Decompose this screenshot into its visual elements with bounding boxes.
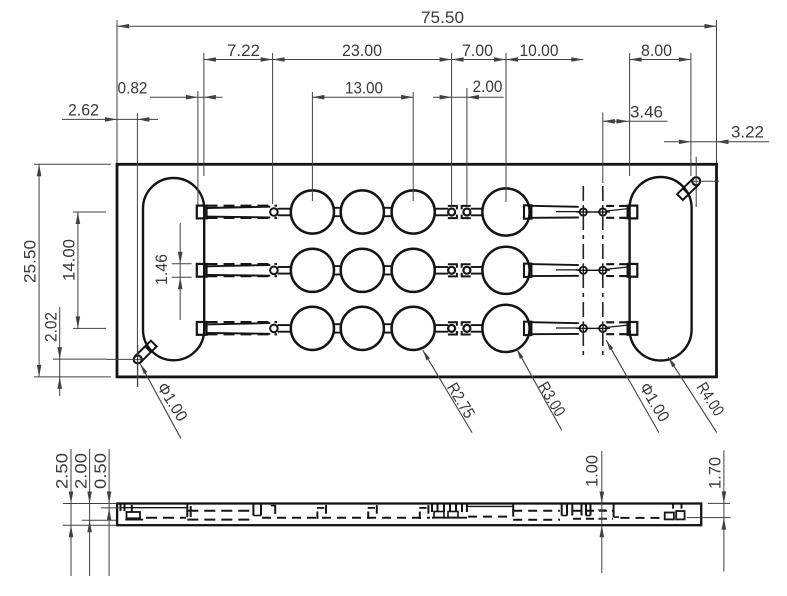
row3 circle 3 (R2.75)	[392, 307, 435, 350]
dimension 3.22	[664, 123, 769, 144]
svg-text:2.00: 2.00	[473, 78, 503, 96]
row3 link 1-2	[334, 324, 341, 332]
row3 pin link line	[587, 327, 599, 329]
row2 cross pin B	[596, 263, 610, 277]
part outline (side view)	[117, 504, 701, 526]
row3 left tab	[197, 322, 207, 335]
row1 stub to pins	[435, 209, 449, 216]
leader dia 1.00 bottom-left hole	[140, 364, 190, 438]
row1 stub to circle4	[471, 209, 483, 216]
row2 left stub	[278, 267, 292, 274]
svg-text:2.02: 2.02	[43, 312, 61, 342]
row1 right tab	[628, 206, 638, 219]
dimension 2.62	[62, 101, 158, 387]
row1 link 2-3	[384, 208, 392, 216]
row1 left pin	[270, 208, 278, 216]
dimension 0.82	[118, 80, 223, 205]
svg-text:2.62: 2.62	[68, 101, 99, 119]
row2 stub to circle4	[471, 267, 483, 274]
dimension 25.50 overall height	[22, 164, 112, 377]
dimension 23.00	[273, 42, 452, 62]
leader R4.00	[668, 357, 727, 432]
dimension 0.50 depth	[92, 449, 123, 576]
svg-text:75.50: 75.50	[421, 9, 464, 27]
row1 circle 3 (R2.75)	[392, 190, 435, 233]
row3 hidden rod	[606, 322, 628, 334]
dimension 7.22	[204, 42, 273, 204]
row3 right tab	[628, 322, 638, 335]
row2 right rod	[531, 264, 580, 276]
row3 right rod	[531, 322, 580, 334]
row3 cross pin A	[576, 321, 590, 335]
row1 right rod	[531, 206, 580, 218]
row3 left pin	[270, 325, 278, 333]
row1 circle 4 (R3.00)	[482, 188, 529, 235]
svg-text:1.46: 1.46	[153, 254, 171, 285]
row1 hidden rod	[606, 206, 628, 218]
svg-text:2.50: 2.50	[54, 453, 72, 489]
row3 bracket pins	[448, 322, 471, 334]
dimension 10.00	[506, 42, 583, 202]
row2 hidden rod	[606, 264, 628, 276]
row1 left tab	[197, 206, 207, 219]
svg-text:14.00: 14.00	[61, 239, 79, 281]
row2 bracket pins	[448, 264, 471, 276]
svg-text:7.22: 7.22	[227, 42, 260, 60]
dimension 13.00	[312, 80, 413, 201]
side view hidden lines left	[187, 511, 252, 520]
side view pin block cluster	[432, 505, 467, 518]
svg-text:3.46: 3.46	[630, 103, 663, 121]
row3 circle 2 (R2.75)	[341, 307, 384, 350]
angled slot top-right with hole	[677, 157, 719, 207]
row3 right cap	[524, 322, 531, 335]
dimension 8.00	[630, 42, 691, 176]
side view middle clusters	[262, 505, 430, 519]
row3 left rod	[207, 322, 278, 334]
svg-text:3.22: 3.22	[731, 123, 764, 141]
dimension 1.70	[687, 450, 731, 571]
row1 circle 1 (R2.75)	[291, 190, 334, 233]
svg-text:7.00: 7.00	[462, 42, 493, 60]
svg-text:0.50: 0.50	[92, 453, 110, 489]
side view right end detail	[614, 505, 685, 520]
row2 circle 1 (R2.75)	[291, 249, 334, 292]
row1 cross pin B	[596, 205, 610, 219]
leader R2.75	[423, 350, 478, 432]
angled slot bottom-left with hole	[107, 341, 157, 387]
row1 left rod	[207, 206, 278, 218]
leader dia 1.00 pin	[606, 340, 672, 432]
side view section under circle4	[467, 505, 560, 520]
row1 bracket pins	[448, 206, 471, 218]
svg-text:8.00: 8.00	[641, 42, 672, 60]
side view left end detail	[120, 505, 191, 520]
row2 circle 4 (R3.00)	[482, 247, 529, 294]
row3 stub to pins	[435, 325, 449, 332]
row2 pin link line	[587, 269, 599, 271]
row3 cross pin B	[596, 321, 610, 335]
dimension 2.50 thickness	[54, 449, 118, 576]
row2 circle 2 (R2.75)	[341, 249, 384, 292]
row1 right cap	[524, 205, 531, 218]
row3 stub to circle4	[471, 325, 483, 332]
side view rod-end clusters	[562, 505, 613, 519]
svg-text:1.00: 1.00	[584, 455, 602, 487]
leader R3.00	[517, 349, 569, 430]
row1 cross pin A	[576, 205, 590, 219]
svg-text:23.00: 23.00	[342, 42, 382, 60]
row2 right tab	[628, 264, 638, 277]
dimension 2.02	[43, 307, 108, 396]
centerline pin column B	[602, 186, 604, 357]
svg-text:0.82: 0.82	[118, 80, 148, 98]
right slot (stadium)	[630, 177, 692, 361]
row2 link 2-3	[384, 266, 392, 274]
row3 left stub	[278, 325, 292, 332]
row2 circle 3 (R2.75)	[392, 249, 435, 292]
row3 circle 1 (R2.75)	[291, 307, 334, 350]
row1 link 1-2	[334, 208, 341, 216]
svg-text:1.70: 1.70	[707, 457, 725, 489]
row2 right cap	[524, 264, 531, 277]
part main outline (top view)	[117, 164, 717, 377]
row3 circle 4 (R3.00)	[482, 305, 529, 352]
dimension 1.00 pin depth	[584, 451, 606, 573]
row2 left rod	[207, 264, 278, 276]
dimension 2.00 depth	[73, 449, 117, 576]
row2 cross pin A	[576, 263, 590, 277]
row2 stub to pins	[435, 267, 449, 274]
dimension 2.00	[433, 78, 504, 206]
row2 left pin	[270, 267, 278, 275]
dimension 7.00	[452, 42, 506, 206]
centerline pin column A	[582, 186, 584, 357]
row2 link 1-2	[334, 266, 341, 274]
svg-text:13.00: 13.00	[345, 80, 383, 98]
row1 left stub	[278, 209, 292, 216]
row3 link 2-3	[384, 324, 392, 332]
row1 circle 2 (R2.75)	[341, 190, 384, 233]
svg-text:25.50: 25.50	[22, 240, 40, 283]
dimension 14.00	[61, 212, 107, 328]
side view cluster at 257	[253, 505, 261, 516]
dimension 75.50 overall width	[117, 9, 717, 163]
row1 pin link line	[587, 211, 599, 213]
svg-text:10.00: 10.00	[520, 42, 559, 60]
row2 left tab	[197, 264, 207, 277]
svg-text:2.00: 2.00	[73, 453, 91, 489]
dimension 1.46	[153, 223, 192, 320]
left slot (stadium)	[143, 178, 204, 360]
dimension 3.46	[603, 103, 668, 183]
